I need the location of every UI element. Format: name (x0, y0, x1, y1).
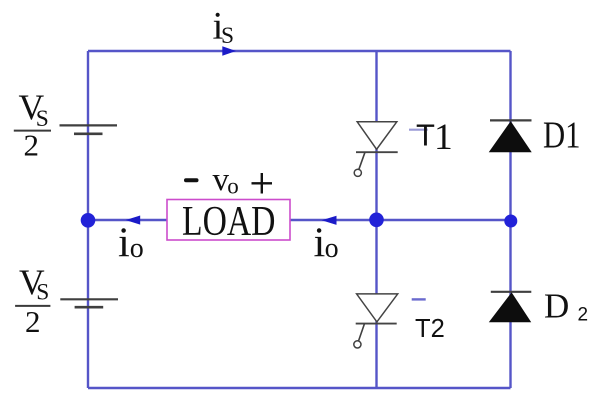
diode D2 cathode bar (491, 291, 532, 293)
label plus of vo (252, 173, 273, 194)
load box (167, 200, 290, 241)
svg-text:2: 2 (25, 304, 41, 339)
svg-text:D: D (544, 287, 569, 326)
wire left rail (87, 51, 89, 388)
wire top rail (88, 50, 511, 52)
thyristor T1 gate terminal circle (354, 169, 361, 176)
svg-text:T: T (416, 118, 435, 153)
battery B2 lower Vs/2 short plate (75, 306, 104, 309)
artifact blue dash near T1 (409, 129, 428, 131)
svg-text:o: o (130, 233, 144, 264)
node right junction (504, 215, 517, 228)
svg-text:T2: T2 (415, 315, 445, 343)
battery B2 lower Vs/2 long plate (60, 298, 118, 300)
label is (213, 5, 235, 49)
svg-text:D1: D1 (543, 115, 581, 157)
node center junction (369, 213, 384, 228)
svg-text:S: S (221, 23, 234, 49)
svg-text:1: 1 (434, 117, 453, 158)
diode D1 triangle (490, 122, 531, 152)
svg-text:2: 2 (24, 127, 40, 162)
svg-text:o: o (325, 233, 339, 264)
label vo (213, 162, 239, 199)
current arrow io left (126, 216, 141, 225)
thyristor T1 gate lead (359, 152, 365, 169)
node left junction (81, 213, 96, 228)
thyristor T1 triangle (357, 122, 397, 150)
wire load left segment (88, 219, 167, 221)
battery B1 upper Vs/2 short plate (74, 133, 103, 136)
wire load right segment (290, 219, 511, 221)
wire right rail (diode leg) (509, 51, 511, 388)
label Vs/2 lower (15, 262, 50, 339)
svg-text:i: i (118, 220, 130, 267)
svg-text:o: o (227, 174, 239, 199)
label D2 (544, 287, 588, 326)
label Vs/2 upper (14, 87, 51, 162)
label minus of vo (186, 178, 197, 182)
thyristor T2 cathode bar (356, 323, 397, 325)
label io left (118, 220, 144, 267)
thyristor T2 gate lead (359, 324, 365, 341)
diode D1 cathode bar (490, 119, 532, 121)
svg-text:S: S (36, 280, 49, 306)
label T1 (416, 117, 453, 158)
artifact blue dash near T2 (412, 298, 426, 300)
wire middle leg (thyristor leg) (375, 51, 377, 388)
current arrow io right (322, 216, 337, 225)
current arrow is on top rail (222, 46, 236, 55)
battery B1 upper Vs/2 long plate (60, 124, 118, 126)
svg-text:i: i (314, 219, 326, 266)
wire bottom rail (88, 387, 511, 389)
svg-text:LOAD: LOAD (182, 199, 276, 245)
thyristor T2 gate terminal circle (354, 341, 361, 348)
diode D2 triangle (490, 293, 531, 322)
thyristor T1 cathode bar (356, 151, 398, 153)
thyristor T2 triangle (357, 294, 398, 322)
svg-text:2: 2 (578, 305, 589, 326)
label io right (314, 219, 339, 266)
